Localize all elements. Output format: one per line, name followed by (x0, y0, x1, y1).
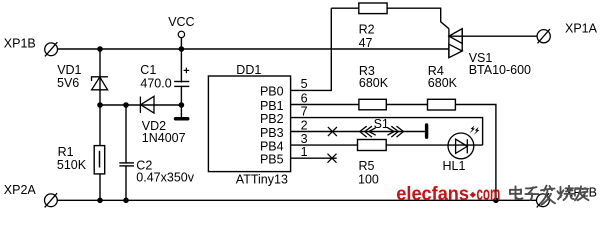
svg-text:7: 7 (301, 104, 308, 118)
svg-text:1: 1 (301, 145, 308, 159)
svg-text:PB3: PB3 (260, 126, 284, 140)
svg-text:XP2A: XP2A (4, 183, 37, 197)
svg-text:XP1B: XP1B (4, 36, 36, 50)
svg-text:R5: R5 (359, 159, 375, 173)
svg-text:PB4: PB4 (260, 139, 284, 153)
svg-text:47: 47 (359, 36, 373, 50)
svg-text:470.0: 470.0 (140, 76, 171, 90)
svg-text:1N4007: 1N4007 (142, 131, 186, 145)
svg-text:HL1: HL1 (443, 159, 466, 173)
svg-text:PB2: PB2 (260, 112, 284, 126)
svg-text:DD1: DD1 (236, 63, 261, 77)
svg-text:680K: 680K (428, 76, 458, 90)
svg-text:C1: C1 (140, 63, 156, 77)
svg-text:PB0: PB0 (260, 85, 284, 99)
svg-text:3: 3 (301, 132, 308, 146)
svg-text:680K: 680K (359, 76, 389, 90)
svg-text:PB1: PB1 (260, 99, 284, 113)
svg-text:R2: R2 (359, 23, 375, 37)
svg-text:S1: S1 (374, 117, 389, 131)
svg-text:100: 100 (358, 172, 379, 186)
svg-text:5V6: 5V6 (57, 76, 79, 90)
svg-text:5: 5 (301, 77, 308, 91)
svg-text:2: 2 (301, 118, 308, 132)
svg-text:com: com (477, 184, 501, 205)
svg-text:6: 6 (301, 91, 308, 105)
svg-text:BTA10-600: BTA10-600 (469, 63, 531, 77)
svg-text:R1: R1 (58, 145, 74, 159)
svg-text:0.47x350v: 0.47x350v (136, 171, 194, 185)
svg-text:VCC: VCC (168, 15, 194, 29)
svg-text:510K: 510K (57, 158, 87, 172)
svg-text:ATTiny13: ATTiny13 (236, 173, 288, 187)
svg-text:PB5: PB5 (260, 153, 284, 167)
svg-text:XP1A: XP1A (565, 21, 598, 35)
svg-text:elecfans: elecfans (396, 184, 469, 205)
svg-text:VD1: VD1 (57, 63, 81, 77)
